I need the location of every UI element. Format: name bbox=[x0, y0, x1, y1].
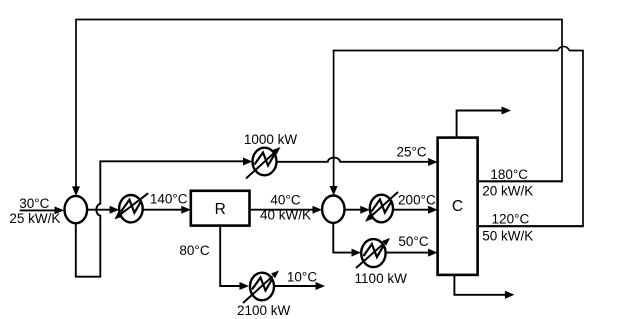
wire recycle line 120C stream down to mixer M2 bbox=[330, 46, 583, 226]
wire E1 outlet to reactor R bbox=[143, 206, 191, 214]
wire reactor R bottom outlet 80C to cooler E3 bbox=[220, 226, 249, 290]
svg-text:1000 kW: 1000 kW bbox=[244, 132, 298, 147]
heat exchanger E4 (200C before column) bbox=[365, 192, 398, 222]
svg-text:25°C: 25°C bbox=[397, 144, 427, 159]
heat exchanger E5 (heater 1100 kW) bbox=[356, 238, 390, 268]
svg-text:R: R bbox=[215, 201, 226, 218]
column C bbox=[438, 138, 478, 275]
reactor R bbox=[191, 191, 250, 226]
svg-text:180°C: 180°C bbox=[490, 167, 528, 182]
heat exchanger E3 (cooler 2100 kW) bbox=[243, 271, 279, 304]
svg-text:10°C: 10°C bbox=[287, 269, 317, 284]
wire reactor R outlet 40C to mixer M2 bbox=[250, 206, 323, 214]
svg-text:140°C: 140°C bbox=[150, 192, 188, 207]
svg-text:120°C: 120°C bbox=[492, 211, 530, 226]
svg-text:30°C: 30°C bbox=[19, 196, 49, 211]
mixer M1 bbox=[65, 196, 88, 223]
wire feed stream 30C into mixer M1 bbox=[20, 206, 64, 214]
svg-text:20 kW/K: 20 kW/K bbox=[482, 184, 533, 199]
wire splitter loop below mixer M1 rising to E2 feed, with line hop over M1 outlet bbox=[76, 161, 244, 276]
svg-text:2100 kW: 2100 kW bbox=[237, 303, 291, 318]
wire column C side stream 180C to recycle node bbox=[478, 180, 563, 182]
wire E3 outlet 10C product bbox=[275, 282, 326, 290]
svg-text:200°C: 200°C bbox=[398, 193, 436, 208]
wire mixer M2 bottom outlet to heat exchanger E5 bbox=[333, 223, 361, 257]
svg-text:40 kW/K: 40 kW/K bbox=[260, 208, 311, 223]
wire E5 outlet 50C to column C bbox=[386, 249, 438, 257]
wire column C side stream 120C to recycle node bbox=[478, 225, 584, 227]
wire E2 outlet 25C to column C, with line hop over M2 feed riser bbox=[277, 158, 438, 166]
wire recycle top line from 180C stream to mixer M1 (node at x=562) bbox=[72, 20, 562, 196]
svg-text:50 kW/K: 50 kW/K bbox=[482, 229, 533, 244]
svg-text:40°C: 40°C bbox=[270, 192, 300, 207]
heat exchanger E1 (heater before reactor) bbox=[114, 193, 148, 222]
svg-text:25 kW/K: 25 kW/K bbox=[9, 211, 60, 226]
wire column C top product bbox=[457, 107, 511, 138]
wire mixer M1 outlet to heat exchanger E1 bbox=[87, 206, 119, 214]
wire column C bottom product bbox=[454, 275, 514, 299]
wire E4 outlet 200C to column C bbox=[393, 206, 438, 214]
wire mixer M2 outlet to heat exchanger E4 bbox=[345, 206, 370, 214]
svg-text:50°C: 50°C bbox=[398, 234, 428, 249]
svg-text:1100 kW: 1100 kW bbox=[355, 271, 408, 286]
svg-text:C: C bbox=[452, 198, 463, 215]
svg-text:80°C: 80°C bbox=[179, 243, 209, 258]
heat exchanger E2 (heater 1000 kW) bbox=[246, 147, 281, 179]
mixer M2 bbox=[322, 196, 344, 223]
